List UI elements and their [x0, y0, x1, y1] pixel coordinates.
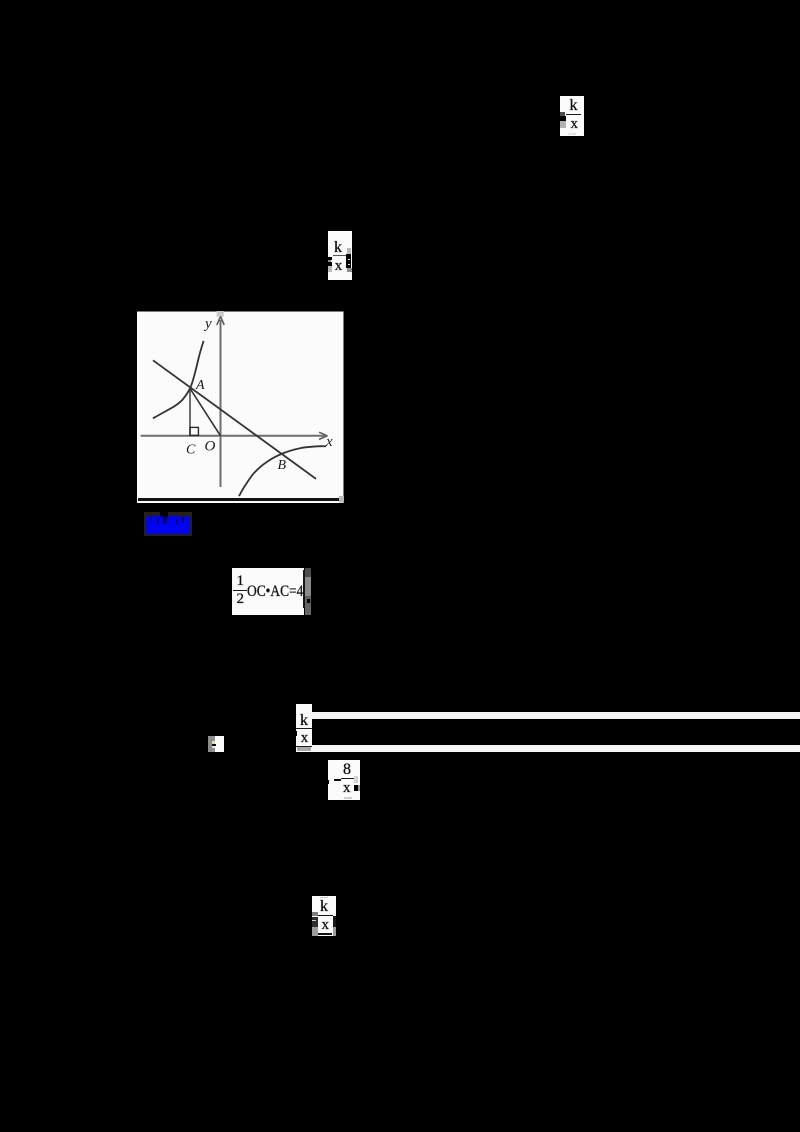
svg-text:B: B	[278, 458, 287, 473]
svg-text:O: O	[205, 439, 216, 455]
svg-text:C: C	[186, 443, 196, 458]
svg-text:x: x	[325, 434, 333, 450]
svg-text:A: A	[195, 378, 205, 393]
svg-text:y: y	[203, 316, 212, 332]
